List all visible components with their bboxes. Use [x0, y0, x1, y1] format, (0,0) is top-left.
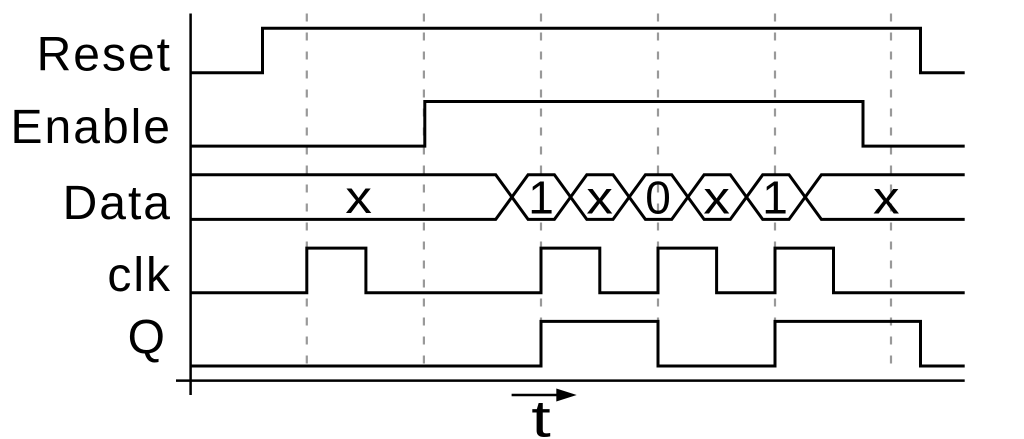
svg-text:x: x: [703, 172, 730, 224]
svg-text:clk: clk: [107, 249, 172, 302]
signal clk waveform: [191, 248, 965, 293]
grid dashed line t4: [657, 14, 659, 374]
svg-text:Enable: Enable: [11, 101, 172, 154]
time arrow head: [556, 389, 576, 402]
svg-text:t: t: [531, 391, 551, 439]
grid dashed line t6: [890, 14, 892, 374]
signal Data bus lower line: [191, 175, 965, 220]
grid dashed line t2: [423, 14, 425, 374]
svg-text:x: x: [873, 172, 900, 224]
grid dashed line t3: [540, 14, 542, 374]
svg-text:0: 0: [645, 172, 671, 224]
svg-text:1: 1: [762, 172, 788, 224]
grid dashed line t5: [774, 14, 776, 374]
y axis: [189, 14, 192, 396]
signal Reset waveform: [191, 28, 965, 73]
grid dashed line t1: [306, 14, 308, 374]
x axis: [176, 379, 965, 382]
signal Data bus upper line: [191, 175, 965, 220]
svg-text:x: x: [586, 172, 613, 224]
svg-text:Q: Q: [128, 312, 167, 365]
signal Q waveform: [191, 321, 965, 366]
svg-text:Reset: Reset: [37, 29, 172, 82]
signal Enable waveform: [191, 102, 965, 147]
time arrow shaft: [512, 394, 560, 397]
svg-text:x: x: [345, 171, 372, 223]
svg-text:Data: Data: [63, 177, 172, 230]
svg-text:1: 1: [528, 172, 554, 224]
